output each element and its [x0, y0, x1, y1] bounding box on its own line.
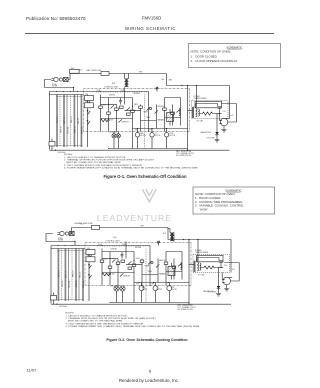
relay RY2 box — [85, 103, 94, 108]
bundle conductor 8b — [82, 249, 84, 302]
oven lamp LP1 — [112, 134, 116, 138]
wire right drop to magnetron filament — [229, 86, 231, 119]
svg-text:RY2: RY2 — [85, 101, 88, 103]
hv diode ground — [215, 135, 220, 142]
note box 2 border — [193, 187, 275, 214]
magnetron ground — [222, 130, 227, 132]
capacitor C1 — [121, 252, 124, 259]
connector bundle wire 6 — [73, 95, 75, 148]
svg-text:MOTOR: MOTOR — [155, 135, 161, 137]
hv diode D1 lead — [218, 268, 220, 287]
link wire row b — [126, 264, 142, 266]
relay contact S7 — [111, 105, 114, 108]
wire corner L1 drop — [166, 74, 168, 86]
connector bundle wire 1 — [56, 95, 58, 148]
node J0 — [183, 239, 184, 240]
svg-text:FMV156D: FMV156D — [142, 15, 161, 20]
component box K2 — [107, 112, 111, 114]
svg-text:Publication No: 5995503470: Publication No: 5995503470 — [26, 16, 86, 21]
wire transformer primary left — [187, 86, 189, 151]
bundle conductor 8b — [81, 95, 83, 148]
column wire g — [148, 92, 150, 132]
node J2 — [74, 241, 75, 242]
wire to power transformer primary — [197, 240, 199, 262]
transformer primary connect — [189, 264, 194, 266]
relay contact S8 — [119, 119, 122, 122]
connector bundle wire 8 — [82, 249, 84, 302]
connector strip bottom — [57, 299, 84, 301]
connector bundle wire 5 dashed — [71, 249, 73, 302]
oven lamp LP2 — [116, 134, 120, 138]
column wire j — [172, 105, 174, 126]
svg-text:DEFROST: DEFROST — [122, 121, 129, 123]
interlock stems — [53, 293, 55, 305]
rail N1 — [50, 91, 149, 93]
oven lamp LP2 — [120, 286, 125, 291]
node J7 — [188, 304, 189, 305]
motor stems — [142, 283, 170, 303]
svg-text:3.5V: 3.5V — [223, 111, 226, 113]
svg-text:BRN-15: BRN-15 — [75, 126, 77, 133]
svg-text:CN-B: CN-B — [121, 90, 125, 92]
svg-text:RED-07: RED-07 — [71, 116, 73, 123]
connector bundle wire 8 — [80, 95, 82, 148]
svg-text:NOTES:: NOTES: — [66, 313, 75, 315]
svg-text:NOTES:: NOTES: — [64, 154, 73, 156]
node N5 — [110, 302, 111, 303]
svg-text:MOTOR: MOTOR — [142, 289, 148, 291]
wire motor feed rail — [134, 282, 189, 284]
connector bundle wire 4 — [68, 249, 70, 302]
svg-text:NOISE: NOISE — [52, 84, 57, 86]
magnetron filament link — [229, 277, 233, 279]
svg-text:GRN-24: GRN-24 — [83, 281, 85, 288]
stirrer motor M3 — [164, 133, 168, 137]
wire L1 top run — [72, 227, 169, 229]
column wire d — [124, 88, 126, 105]
hv circuit dashed box — [192, 101, 229, 119]
svg-text:MUST BE CONNECTED TO THE NEUTR: MUST BE CONNECTED TO THE NEUTRAL WIRE. — [67, 161, 122, 164]
svg-text:STIR.: STIR. — [171, 287, 175, 289]
inductor L2 coil — [179, 109, 180, 116]
node N6 — [150, 285, 151, 286]
svg-text:YEL-21: YEL-21 — [79, 272, 81, 278]
thermistor TH1 — [156, 87, 158, 89]
hv diode D1 — [217, 286, 221, 289]
control unit dashed box — [84, 89, 190, 132]
svg-text:1. LAYOUTS SUBJECT TO CHANGE W: 1. LAYOUTS SUBJECT TO CHANGE WITHOUT NOT… — [64, 156, 126, 159]
svg-text:Figure O-2. Oven Schematic-Coo: Figure O-2. Oven Schematic-Cooking Condi… — [106, 338, 187, 342]
thermal cutout TCO1 boxed X — [70, 231, 75, 235]
svg-text:H.V. DIODE: H.V. DIODE — [208, 292, 216, 294]
connector strip top — [56, 95, 83, 97]
low voltage transformer T2 windings — [168, 229, 175, 242]
node J7 — [187, 150, 188, 151]
hv diode D1 — [215, 132, 219, 135]
hv diode ground — [216, 289, 221, 296]
svg-text:MOTOR: MOTOR — [169, 135, 175, 137]
door switch pivot 1 — [87, 100, 88, 101]
fuse F1 mag temp fuse — [92, 225, 100, 229]
svg-text:H.V. DIODE: H.V. DIODE — [207, 138, 215, 140]
svg-text:Rendered by LeadVenture, Inc.: Rendered by LeadVenture, Inc. — [119, 378, 179, 383]
svg-text:FB01: FB01 — [71, 68, 75, 70]
wire motor feed rail — [133, 128, 188, 130]
svg-text:BLK: BLK — [163, 233, 166, 235]
wire riser TCO to L1 — [68, 74, 70, 80]
thermistor TH1 — [158, 241, 160, 243]
connector bundle wire 5 dashed — [70, 95, 72, 148]
turntable motor M2 — [153, 286, 158, 291]
component box K3 — [115, 108, 119, 110]
svg-text:CN-B: CN-B — [122, 244, 126, 246]
inductor L2 coil — [181, 263, 182, 270]
notes block — [66, 313, 201, 329]
column wire d — [125, 242, 127, 259]
svg-text:VRS1: VRS1 — [134, 104, 138, 106]
component box K1 — [99, 106, 103, 108]
node J3 — [137, 128, 138, 129]
svg-text:WHT-12: WHT-12 — [65, 271, 67, 278]
component box K5 — [139, 106, 143, 108]
svg-text:GRN: GRN — [169, 80, 172, 82]
power transformer T1 core — [194, 261, 195, 272]
svg-text:SW : INTERLOCK SW.: SW : INTERLOCK SW. — [178, 309, 194, 311]
power transformer T1 secondary winding — [197, 262, 199, 271]
lamp stems — [114, 132, 118, 149]
node J8 — [220, 267, 221, 268]
svg-text:SENSOR: SENSOR — [158, 106, 165, 108]
node N3 — [132, 106, 133, 107]
hv capacitor C2 — [219, 261, 223, 268]
door switch pivot 3 — [88, 274, 89, 275]
node N6 — [148, 131, 149, 132]
connector bundle wire 4 — [66, 95, 68, 148]
component box K6 — [164, 262, 168, 264]
node J3 — [138, 282, 139, 283]
power transformer T1 primary winding — [200, 263, 201, 270]
component box K9 — [128, 267, 132, 269]
magnetron V1 — [223, 277, 231, 285]
svg-text:2. CLOCK APPEARS ON DISPLAY.: 2. CLOCK APPEARS ON DISPLAY. — [191, 59, 239, 63]
hv capacitor C2 — [218, 107, 222, 114]
relay RY1 box — [85, 96, 94, 101]
bundle conductor 1b — [58, 249, 60, 302]
column wire i — [164, 98, 166, 132]
wire riser TCO to L1 — [70, 228, 72, 234]
svg-text:FB01 : NOISE FILTER: FB01 : NOISE FILTER — [176, 151, 192, 153]
interlock stems — [51, 139, 53, 151]
component box K3 — [116, 262, 120, 264]
component box K4 — [131, 110, 135, 112]
magnetron ground — [224, 289, 229, 291]
node N1 — [109, 258, 110, 259]
column wire f — [141, 259, 143, 286]
svg-text:WHT-12: WHT-12 — [64, 117, 66, 124]
relay RY1 box — [86, 250, 95, 255]
svg-text:SW : INTERLOCK SW.: SW : INTERLOCK SW. — [176, 155, 192, 157]
wire right drop to magnetron filament — [230, 240, 232, 273]
relay RY2 box — [86, 257, 95, 262]
hv diode D1 lead — [216, 114, 218, 133]
wire L1 top run — [70, 73, 167, 75]
component box K6 — [163, 108, 167, 110]
component box K7 — [171, 112, 175, 114]
node J5 — [167, 282, 168, 283]
relay contact S5 — [155, 110, 158, 113]
thermal cutout TCO1 boxed X — [64, 77, 69, 81]
svg-text:CONTROL UNIT: CONTROL UNIT — [106, 241, 121, 243]
svg-text:FB01 : NOISE FILTER: FB01 : NOISE FILTER — [178, 305, 194, 307]
relay contact S4 — [147, 107, 150, 110]
column wire a — [100, 95, 102, 132]
connector pin row — [96, 91, 147, 93]
column wire b — [109, 252, 111, 286]
node J6 — [55, 150, 56, 151]
svg-text:SENSOR: SENSOR — [159, 260, 166, 262]
noise filter block FB01 — [70, 70, 80, 74]
relay contact S9 — [127, 107, 130, 110]
wire hv to magnetron — [216, 113, 222, 115]
svg-text:COOK SW: COOK SW — [106, 119, 114, 121]
interconnect wire rows — [102, 272, 182, 275]
connector strip top — [57, 249, 84, 251]
column wire c — [116, 105, 118, 132]
column wire e — [132, 98, 134, 129]
control transformer T3 core hatch — [168, 263, 176, 280]
node N1 — [108, 104, 109, 105]
svg-text:ORG-09: ORG-09 — [69, 281, 71, 288]
inner dashed wire — [145, 249, 147, 303]
svg-text:MUST BE CONNECTED TO THE NEUTR: MUST BE CONNECTED TO THE NEUTRAL WIRE. — [68, 320, 123, 323]
relay contact S7 — [112, 259, 115, 262]
node J8 — [219, 113, 220, 114]
hv resistor R1 zigzag — [200, 112, 216, 115]
svg-text:MOTOR: MOTOR — [140, 135, 146, 137]
component box K8 — [120, 106, 124, 108]
wire J2 to rail N1 — [74, 242, 76, 246]
low voltage transformer T2 windings — [125, 74, 129, 88]
bottom bus neutral — [51, 303, 231, 305]
turntable motor M2 — [150, 133, 154, 137]
door switch SW2 — [88, 111, 91, 114]
svg-text:Figure O-1. Oven Schematic-Off: Figure O-1. Oven Schematic-Off Condition — [103, 174, 187, 179]
connector bundle wire 3 — [64, 249, 66, 302]
svg-text:ORG-09: ORG-09 — [68, 127, 70, 134]
svg-text:2. TERMINAL WITH PROJECTION OR: 2. TERMINAL WITH PROJECTION OR OPPOSITE … — [66, 317, 157, 320]
motor stems — [138, 129, 167, 149]
svg-text:3. ONLY CERTAIN MODELS USE THE: 3. ONLY CERTAIN MODELS USE THE ABSOLUTE … — [64, 164, 143, 167]
connector bundle wire 7 — [77, 95, 79, 148]
column wire k — [181, 252, 183, 280]
relay contact S6 — [178, 263, 181, 266]
magnetron antenna — [226, 285, 228, 289]
connector bundle wire 2 dashed — [59, 95, 61, 148]
fuse F1 mag temp fuse — [101, 71, 109, 75]
svg-text:11/07: 11/07 — [27, 368, 37, 373]
svg-text:RY2: RY2 — [87, 255, 90, 257]
node J4 — [151, 128, 152, 129]
hv circuit dashed box — [193, 255, 230, 273]
node J5 — [166, 128, 167, 129]
bundle conductor 6b — [75, 249, 77, 302]
plug P1 power supply cord — [57, 231, 68, 235]
filament return wire — [224, 263, 239, 282]
wire corner L1 drop — [167, 228, 169, 240]
door switch pivot 2 — [88, 264, 89, 265]
interconnect wire rows — [101, 118, 181, 121]
connector bundle wire 7 — [78, 249, 80, 302]
magnetron filament stubs — [220, 114, 223, 124]
column wire b — [108, 98, 110, 132]
component box K8 — [121, 260, 125, 262]
node J6 — [56, 304, 57, 305]
varistor VA1 — [149, 107, 151, 109]
transformer top lead — [197, 258, 219, 263]
bundle top nodes — [56, 91, 78, 92]
upper link wires — [102, 251, 182, 253]
svg-text:LEADVENTURE: LEADVENTURE — [97, 213, 172, 223]
component box K1 — [100, 260, 104, 262]
svg-text:GRN: GRN — [170, 234, 173, 236]
svg-text:3. ONLY CERTAIN MODELS USE THE: 3. ONLY CERTAIN MODELS USE THE ABSOLUTE … — [66, 322, 145, 325]
column wire e — [133, 252, 135, 283]
mid bottom bus — [110, 302, 189, 304]
svg-text:MOTOR: MOTOR — [171, 289, 177, 291]
resistor R2 — [101, 119, 110, 122]
lamp stems — [117, 286, 123, 303]
svg-text:YEL-21: YEL-21 — [78, 118, 80, 124]
door switch pivot 2 — [87, 110, 88, 111]
relay contact S6 — [177, 109, 180, 112]
inner dashed wire — [144, 95, 146, 149]
hv transformer assembly outline — [197, 255, 224, 261]
node N2 — [117, 264, 118, 265]
component box K9 — [127, 113, 131, 115]
watermark logo triangle — [142, 189, 156, 202]
relay contact S9 — [128, 261, 131, 264]
component box K5 — [140, 260, 144, 262]
svg-text:MOTOR: MOTOR — [156, 289, 162, 291]
connector pin row — [98, 245, 149, 247]
column wire c — [117, 259, 119, 286]
connector strip bottom — [56, 145, 83, 147]
node J9 — [187, 85, 188, 86]
node J0 — [181, 85, 182, 86]
power transformer T1 secondary winding — [196, 108, 198, 117]
relay contact S5 — [156, 264, 159, 267]
svg-text:BUZZER: BUZZER — [134, 93, 141, 95]
link wire row a — [101, 104, 117, 106]
bottom bus neutral — [50, 149, 230, 151]
link wire row a — [102, 258, 118, 260]
bundle conductor 6b — [74, 95, 76, 148]
wire left edge vertical — [49, 92, 51, 150]
transformer core hatch — [194, 260, 196, 271]
relay contact S4 — [148, 261, 151, 264]
wire J2 to rail N1 — [73, 88, 75, 92]
upper link wires — [101, 97, 181, 99]
magnetron filament stubs — [222, 273, 225, 283]
door switch SW3 — [89, 275, 92, 278]
svg-text:BRN-15: BRN-15 — [76, 280, 78, 287]
svg-text:RY1: RY1 — [87, 248, 90, 250]
node N5 — [108, 148, 109, 149]
connector bundle wire 3 — [63, 95, 65, 148]
node J2 — [73, 87, 74, 88]
fan motor M1 — [139, 286, 144, 291]
component box K7 — [172, 266, 176, 268]
mid bottom bus — [109, 148, 188, 150]
transformer top lead — [196, 104, 218, 109]
svg-text:1. LAYOUTS SUBJECT TO CHANGE W: 1. LAYOUTS SUBJECT TO CHANGE WITHOUT NOT… — [66, 314, 128, 317]
connector bundle wire 6 — [75, 249, 77, 302]
control unit dashed box — [85, 243, 191, 286]
svg-text:GRY-03: GRY-03 — [62, 280, 64, 287]
svg-text:FB01: FB01 — [75, 223, 79, 225]
svg-text:WIRING SCHEMATIC: WIRING SCHEMATIC — [125, 26, 176, 31]
wire L1 upper rail right — [167, 85, 230, 87]
svg-text:NOTE: CONDITION OF OVEN:: NOTE: CONDITION OF OVEN: — [191, 50, 232, 54]
transformer primary connect — [188, 110, 193, 112]
wire transformer primary left — [188, 240, 190, 305]
door switch SW3 — [88, 121, 91, 124]
plug P1 power supply cord — [51, 77, 62, 81]
column wire j — [173, 259, 175, 280]
door switch SW2 — [89, 265, 92, 268]
node N4 — [102, 245, 103, 246]
door switch pivot 3 — [87, 120, 88, 121]
filament return wire — [222, 104, 237, 123]
node N3 — [133, 260, 134, 261]
component box K2 — [108, 266, 112, 268]
column wire h — [156, 105, 158, 129]
bundle conductor 1b — [56, 95, 58, 148]
connector bundle wire 1 — [57, 249, 59, 302]
rail N1 — [51, 245, 150, 247]
column wire i — [165, 252, 167, 286]
transformer core hatch — [192, 106, 194, 117]
svg-text:1. DOOR CLOSED.: 1. DOOR CLOSED. — [191, 54, 218, 58]
svg-text:TRANSFORMER: TRANSFORMER — [194, 97, 208, 100]
wire left edge vertical — [50, 246, 52, 304]
bundle top nodes — [58, 245, 80, 246]
svg-text:TRANSFORMER: TRANSFORMER — [195, 251, 209, 254]
svg-text:WHT: WHT — [139, 72, 142, 74]
svg-text:WHT: WHT — [141, 226, 144, 228]
svg-text:BLU-18: BLU-18 — [58, 271, 60, 277]
door switch SW1 — [88, 101, 91, 104]
magnetron V1 — [220, 118, 228, 126]
svg-text:RED-07: RED-07 — [72, 270, 74, 277]
svg-text:STIR.: STIR. — [169, 133, 173, 135]
rail N2 — [51, 248, 85, 250]
svg-text:4. POWER TRANSFORMER LEFT (CHA: 4. POWER TRANSFORMER LEFT (CHASSIS SIDE)… — [64, 167, 199, 170]
hv transformer assembly outline — [195, 101, 222, 108]
wire feed drop left — [133, 283, 135, 303]
svg-text:COOK SW: COOK SW — [107, 273, 115, 275]
magnetron filament link — [226, 118, 230, 120]
power transformer T1 core — [193, 107, 194, 118]
varistor VA1 — [151, 261, 153, 263]
column wire g — [149, 246, 151, 286]
column wire k — [180, 98, 182, 126]
svg-text:NOISE: NOISE — [58, 238, 63, 240]
component box K4 — [132, 264, 136, 266]
node J1 — [196, 85, 197, 86]
link wire row b — [125, 110, 141, 112]
capacitor C1 — [119, 98, 122, 105]
